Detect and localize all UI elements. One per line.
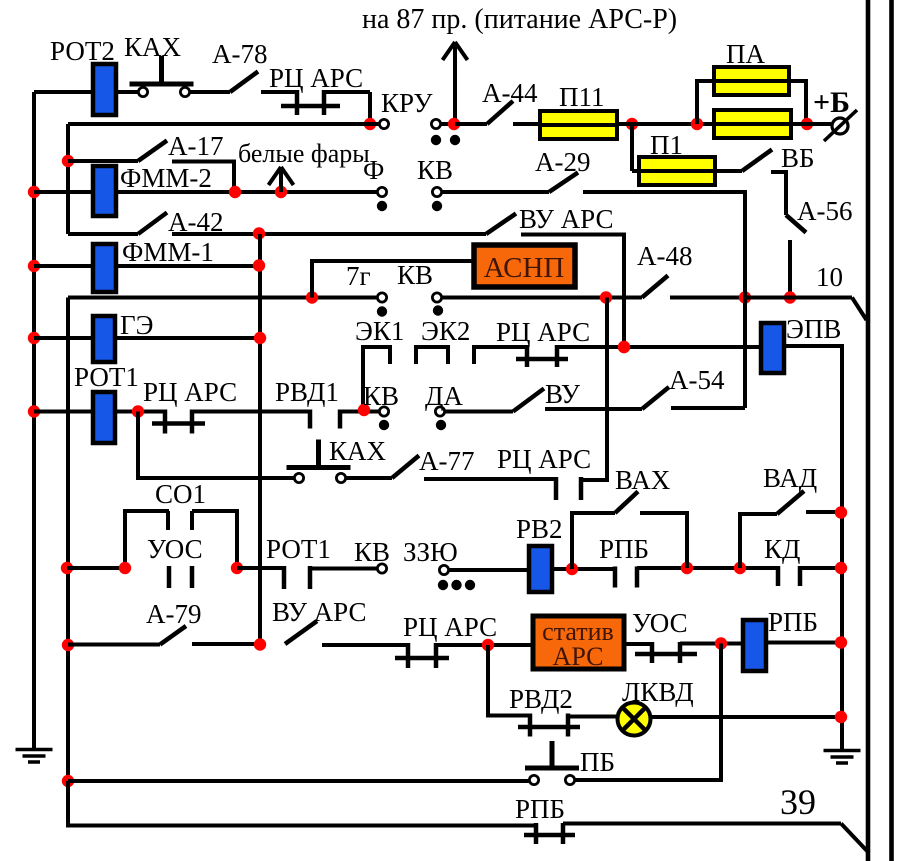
PA parallel branch up: [697, 81, 714, 124]
svg-text:РПБ: РПБ: [515, 794, 565, 824]
contact CO1 bracket right: [192, 511, 237, 568]
junction lamp bus: [835, 711, 847, 723]
left bus vertical: [32, 92, 36, 749]
relay coil RV2: [529, 546, 552, 592]
33Yu dots: [438, 580, 448, 590]
relay coil POT2: [93, 64, 116, 115]
junction vertical 260: [253, 227, 265, 239]
svg-text:ДА: ДА: [425, 381, 463, 411]
contact RPB mid ticks: [613, 567, 618, 588]
junction A-48 node: [600, 291, 612, 303]
button KAX contacts: [138, 87, 147, 96]
junction ACNP branch: [306, 291, 318, 303]
wire to +B terminal: [791, 122, 831, 126]
breaker A-77 blade: [392, 456, 419, 479]
contact RPB bottom: [534, 823, 539, 844]
wire RC APC to node: [324, 90, 370, 94]
bus corner A-42: [68, 232, 138, 236]
junction bus UOC row: [61, 562, 73, 574]
svg-text:ЭПВ: ЭПВ: [786, 314, 841, 344]
frame line outer: [889, 0, 894, 861]
wire VU APC2 out: [322, 643, 408, 647]
contactor KV circle: [377, 564, 386, 573]
switch VU APC blade: [486, 214, 516, 235]
vertical x607: [581, 298, 607, 481]
junction RPB bus: [835, 636, 847, 648]
main top line: [68, 122, 379, 126]
svg-text:А-48: А-48: [637, 241, 693, 271]
button KAX2 contacts: [294, 473, 303, 482]
relay coil FMM-2: [93, 166, 116, 216]
junction EK1 leg: [358, 404, 370, 416]
wire VAX branch: [572, 513, 615, 569]
svg-text:РОТ1: РОТ1: [266, 534, 331, 564]
wire P11 to PA: [617, 122, 714, 126]
svg-text:ГЭ: ГЭ: [120, 310, 153, 340]
junction VU APC drop: [618, 341, 630, 353]
junction CO1 right: [231, 562, 243, 574]
svg-text:А-29: А-29: [535, 147, 591, 177]
svg-text:РЦ АРС: РЦ АРС: [143, 377, 237, 407]
svg-text:7г: 7г: [346, 261, 371, 291]
svg-text:КВ: КВ: [397, 260, 433, 290]
wire VU APC out: [521, 235, 624, 348]
wire VAX out: [640, 513, 687, 568]
junction PB branch: [715, 637, 727, 649]
wire A-44 to P11: [513, 122, 540, 126]
fuse P11: [540, 111, 617, 139]
svg-text:РПБ: РПБ: [599, 534, 649, 564]
wire P1 left stub: [632, 169, 639, 173]
svg-text:РВД2: РВД2: [509, 684, 573, 714]
contactor KRU circles: [379, 119, 388, 128]
wire EK row to EPV: [557, 345, 761, 349]
wire to RVD1: [192, 410, 310, 414]
svg-text:ПБ: ПБ: [580, 747, 615, 777]
contact RC APC POT1 row: [163, 410, 168, 434]
wire DA to VU: [445, 410, 513, 414]
button KAX plunger: [130, 82, 194, 87]
breaker A-78 blade: [230, 72, 258, 93]
wire UOC out: [680, 642, 743, 646]
svg-text:РЦ АРС: РЦ АРС: [403, 612, 497, 642]
frame line inner: [866, 0, 871, 861]
wire RVD2 branch: [488, 645, 530, 716]
contact RC APC top: [295, 90, 300, 115]
svg-text:КД: КД: [764, 534, 800, 564]
breaker A-54 blade: [642, 387, 669, 409]
junction PA left: [691, 118, 703, 130]
svg-text:РОТ1: РОТ1: [74, 362, 139, 392]
junction RVD2 branch: [482, 639, 494, 651]
junction VAD bus: [835, 506, 847, 518]
wire RV2 out: [552, 567, 615, 571]
wire ACNP branch: [312, 261, 474, 298]
wire 7g row right: [442, 296, 642, 300]
contact EK2 bracket: [416, 347, 448, 364]
svg-text:П1: П1: [650, 130, 683, 160]
svg-text:КРУ: КРУ: [381, 88, 433, 118]
breaker A-42 blade: [138, 213, 167, 235]
wire lamp to bus: [650, 715, 842, 719]
svg-text:А-78: А-78: [212, 39, 268, 69]
svg-text:10: 10: [816, 262, 843, 292]
fuse PA lower: [714, 110, 791, 138]
wire FMM-1 row: [116, 264, 260, 268]
wire A-79 out: [192, 642, 260, 646]
wire A-54 out: [671, 406, 745, 410]
vertical bus x68 upper: [66, 124, 70, 234]
contact EK1 bracket: [363, 347, 390, 408]
svg-text:ВАД: ВАД: [763, 463, 817, 493]
contact UOC ticks: [167, 566, 172, 588]
wire 33Yu to RV2: [449, 568, 529, 572]
junction RV2 out: [566, 563, 578, 575]
contact RVD1: [308, 410, 313, 429]
svg-text:ВУ: ВУ: [545, 379, 581, 409]
relay coil GE: [93, 316, 115, 362]
svg-text:АРС: АРС: [553, 642, 604, 671]
wire KD to bus: [800, 566, 842, 570]
junction bus A-79: [62, 639, 74, 651]
svg-text:РВ2: РВ2: [516, 514, 563, 544]
relay coil EPV: [761, 323, 784, 373]
junction GE right: [254, 332, 266, 344]
button PB plunger: [525, 766, 579, 771]
wire A-77 out: [424, 477, 556, 481]
junction headlights arrow: [275, 186, 287, 198]
wire A-29 out: [583, 192, 745, 298]
junction bus PB: [62, 775, 74, 787]
wire POT2 to KAX: [116, 90, 139, 94]
junction A-56: [784, 291, 796, 303]
junction bus GE: [28, 332, 40, 344]
junction VAD drop: [734, 562, 746, 574]
arrow to wire 87: [453, 45, 457, 124]
junction POT1: [132, 405, 144, 417]
bus corner 7g row: [68, 296, 377, 300]
wire RPB to bus: [766, 641, 842, 645]
svg-text:39: 39: [780, 782, 816, 822]
node: POT2 row corner: [34, 90, 93, 94]
junction A-17 drop: [229, 186, 241, 198]
button KAX2 plunger: [287, 465, 351, 470]
junction bus FMM-2: [28, 186, 40, 198]
svg-text:А-77: А-77: [419, 446, 475, 476]
breaker A-29 blade: [549, 173, 578, 193]
vertical link x260: [258, 234, 262, 645]
wire down to main line: [368, 92, 372, 124]
wire bus to CO1: [67, 566, 125, 570]
wire bus to FMM-2: [34, 190, 93, 194]
svg-text:КАХ: КАХ: [124, 32, 182, 62]
wire P1 to VB: [715, 169, 742, 173]
junction arrow node: [448, 118, 460, 130]
wire bus to GE: [34, 336, 93, 340]
7g KV dots: [377, 306, 387, 316]
contactor 7g KV circles: [377, 293, 386, 302]
junction KD bus: [835, 562, 847, 574]
contact CO1 bracket left: [125, 511, 169, 568]
KV DA dots: [379, 420, 389, 430]
breaker A-79 blade: [160, 626, 186, 645]
wire A-56 down: [788, 240, 792, 298]
svg-text:ФММ-2: ФММ-2: [120, 163, 212, 193]
wire PB out: [575, 644, 721, 781]
wire RPB to KD: [637, 566, 778, 570]
svg-text:УОС: УОС: [632, 608, 688, 638]
contact RC APC EK row: [525, 345, 530, 367]
contact UOC stativ row: [650, 642, 655, 663]
button PB contacts: [529, 775, 538, 784]
svg-text:ЗЗЮ: ЗЗЮ: [403, 537, 458, 567]
wire 10 line: [745, 296, 852, 300]
wire to A-44: [455, 122, 487, 126]
svg-text:белые фары: белые фары: [238, 139, 370, 168]
KRU closed-position dots: [431, 135, 441, 145]
unit stativ APC box: [533, 616, 624, 669]
svg-text:А-79: А-79: [146, 599, 202, 629]
terminal +B slash: [824, 110, 857, 141]
contact KD ticks: [776, 566, 781, 586]
wire bus to PB: [68, 779, 530, 783]
wire POT1 to KV: [310, 567, 377, 571]
PA branch down right: [789, 81, 806, 124]
relay coil RPB: [743, 620, 766, 671]
wire bus to FMM-1: [34, 264, 93, 268]
svg-text:ЛКВД: ЛКВД: [622, 677, 694, 707]
wire UOC row mid: [237, 566, 284, 570]
wire bus bottom corner: [68, 781, 536, 826]
svg-text:АСНП: АСНП: [484, 252, 565, 284]
contactor F KV circles: [377, 187, 386, 196]
wire VU out: [545, 407, 642, 411]
contact RVD2: [528, 714, 533, 737]
junction VAX drop: [681, 562, 693, 574]
exit 10 diagonal: [852, 298, 867, 321]
svg-text:КВ: КВ: [354, 537, 390, 567]
wire down to P1: [630, 124, 634, 171]
wire RVD2 to lamp: [568, 715, 619, 719]
svg-text:ПА: ПА: [726, 39, 765, 69]
contact POT1 ticks: [282, 566, 287, 589]
junction after P11: [626, 118, 638, 130]
wire FMM-2 row: [116, 190, 377, 194]
svg-text:ВУ АРС: ВУ АРС: [272, 597, 367, 627]
breaker A-44 blade: [487, 101, 513, 124]
wire EPV to right bus: [784, 346, 842, 749]
wire RVD1 to KV: [340, 410, 379, 414]
terminal +B circle: [832, 118, 848, 134]
svg-text:РЦ АРС: РЦ АРС: [269, 63, 363, 93]
svg-text:Ф: Ф: [363, 155, 384, 185]
svg-text:РОТ2: РОТ2: [50, 36, 115, 66]
switch VAD blade: [777, 491, 804, 514]
junction A-17 row: [62, 155, 74, 167]
junction x260 end: [254, 638, 266, 650]
svg-text:СО1: СО1: [155, 479, 206, 509]
wire stativ to UOC: [624, 642, 652, 646]
switch VAX blade: [615, 492, 638, 514]
junction bus FMM-1: [28, 260, 40, 272]
svg-text:РЦ АРС: РЦ АРС: [496, 317, 590, 347]
wire VB corner down: [771, 172, 786, 215]
breaker A-17 blade: [138, 141, 167, 162]
svg-text:УОС: УОС: [147, 534, 203, 564]
svg-text:ВБ: ВБ: [781, 143, 815, 173]
junction FMM-1 right: [253, 259, 265, 271]
vertical bus x68 lower: [66, 298, 70, 827]
contactor 33Yu circle: [439, 565, 448, 574]
arrow belye fary: [279, 170, 283, 192]
wire to A-17: [68, 159, 138, 163]
contact RC APC top: left wire: [261, 90, 297, 94]
wire VAD out: [806, 510, 842, 514]
svg-text:А-56: А-56: [797, 196, 853, 226]
junction bus POT1: [28, 405, 40, 417]
wire POT1 out: [115, 410, 165, 414]
relay coil FMM-1: [93, 244, 116, 292]
svg-text:ЭК1: ЭК1: [355, 316, 404, 346]
wire A-48 out: [670, 296, 745, 300]
svg-text:на 87 пр. (питание АРС-Р): на 87 пр. (питание АРС-Р): [362, 4, 677, 35]
svg-text:КАХ: КАХ: [329, 436, 387, 466]
exit 39 diagonal: [841, 824, 869, 854]
svg-text:+Б: +Б: [813, 86, 850, 119]
svg-text:А-44: А-44: [482, 78, 538, 108]
wire KRU to node: [441, 122, 455, 126]
wire bus to POT1: [34, 410, 93, 414]
svg-text:А-54: А-54: [669, 365, 725, 395]
svg-text:РПБ: РПБ: [768, 607, 818, 637]
svg-text:КВ: КВ: [417, 155, 453, 185]
breaker A-56 blade: [786, 215, 806, 233]
vertical x624 end: [618, 341, 630, 353]
switch VU blade: [513, 389, 544, 412]
junction 10-line left: [739, 291, 751, 303]
contact RC APC EK row bracket: [474, 347, 527, 364]
wire KAX to A-78: [189, 90, 230, 94]
fuse PA upper: [714, 67, 789, 95]
contactor KV DA circles: [379, 407, 388, 416]
wire bus to A-79: [68, 643, 160, 647]
F KV dots: [377, 201, 387, 211]
relay coil POT1: [93, 392, 115, 443]
svg-text:ВАХ: ВАХ: [615, 465, 671, 495]
wire VAD branch: [740, 514, 777, 568]
junction PA right: [801, 118, 813, 130]
wire KAX2 to A-77: [346, 476, 392, 480]
svg-text:ВУ АРС: ВУ АРС: [519, 204, 614, 234]
contact RC APC A77 row: [554, 477, 559, 500]
svg-text:П11: П11: [559, 82, 605, 112]
svg-text:ФММ-1: ФММ-1: [122, 237, 214, 267]
breaker A-48 blade: [642, 276, 668, 298]
wire KV to A-29: [442, 190, 549, 194]
wire A-17 out: [172, 162, 234, 193]
svg-text:А-17: А-17: [168, 131, 224, 161]
svg-text:РВД1: РВД1: [275, 377, 339, 407]
wire RPB to exit: [563, 822, 841, 826]
vertical x745 A29-to-A54: [743, 192, 747, 408]
junction CO1 left: [119, 562, 131, 574]
svg-text:РЦ АРС: РЦ АРС: [497, 444, 591, 474]
wire GE row: [115, 336, 260, 340]
unit ACNP box: [474, 245, 575, 287]
switch VU APC2 blade: [285, 621, 317, 644]
svg-text:ЭК2: ЭК2: [421, 316, 470, 346]
svg-text:КВ: КВ: [363, 381, 399, 411]
contact RC APC stativ row: [406, 643, 411, 668]
wire A-42 row: [172, 232, 486, 236]
wire POT1 drop: [138, 412, 294, 479]
lamp LKVD: [618, 703, 651, 736]
wire to stativ: [436, 643, 533, 647]
ground right: [824, 751, 861, 764]
ground left: [16, 750, 53, 763]
junction: [364, 118, 376, 130]
switch VB blade: [742, 150, 772, 172]
fuse P1: [639, 157, 715, 185]
